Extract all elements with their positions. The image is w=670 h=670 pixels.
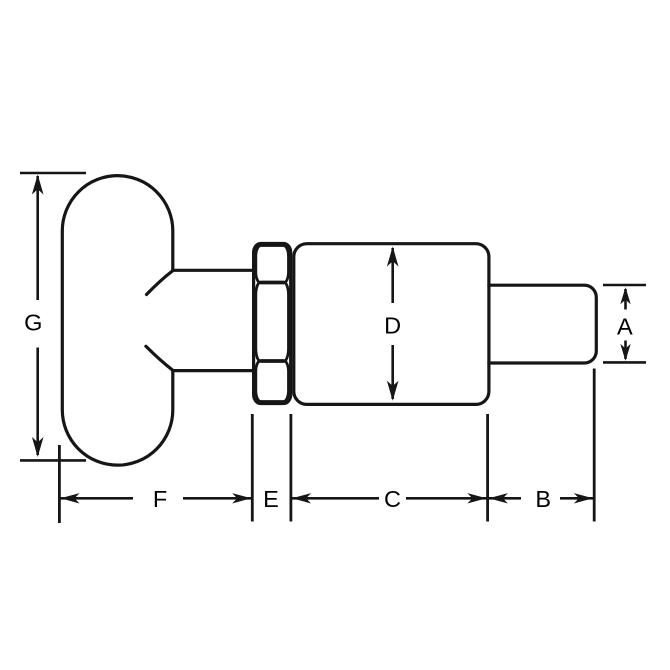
svg-text:B: B <box>535 486 551 512</box>
svg-text:A: A <box>617 313 633 339</box>
svg-text:F: F <box>153 486 167 512</box>
svg-text:E: E <box>263 486 279 512</box>
svg-text:D: D <box>384 312 401 338</box>
svg-text:G: G <box>24 310 42 336</box>
svg-text:C: C <box>384 486 401 512</box>
